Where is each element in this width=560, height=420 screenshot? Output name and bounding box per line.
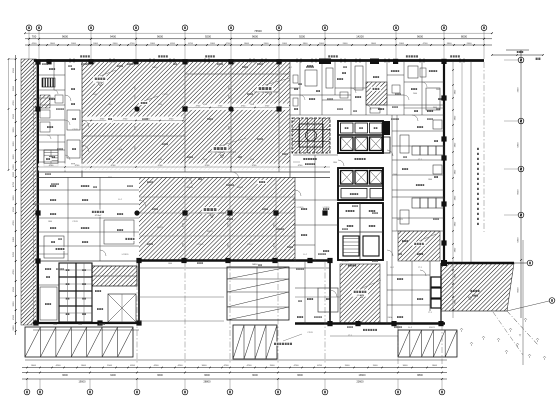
left hatched wall band: [21, 59, 36, 325]
svg-text:LC1820: LC1820: [342, 261, 349, 263]
svg-text:3600: 3600: [371, 43, 377, 45]
svg-text:FM-A: FM-A: [118, 148, 123, 151]
svg-text:1800: 1800: [168, 263, 172, 265]
svg-text:1800: 1800: [53, 324, 57, 326]
svg-text:4200: 4200: [228, 223, 230, 227]
svg-text:FM-A: FM-A: [388, 316, 393, 319]
leader lines: [100, 70, 436, 341]
svg-text:C1515: C1515: [72, 129, 78, 131]
svg-text:YT-1: YT-1: [34, 149, 38, 151]
svg-text:C1515: C1515: [72, 221, 78, 223]
svg-text:9600: 9600: [62, 35, 68, 39]
svg-text:3600: 3600: [13, 195, 15, 201]
svg-text:1800: 1800: [183, 219, 187, 221]
svg-text:YT-1: YT-1: [418, 159, 422, 161]
svg-text:5200: 5200: [13, 164, 15, 170]
partitions in hatched halls: [82, 62, 295, 261]
svg-text:4200: 4200: [130, 365, 136, 367]
svg-text:YT-1: YT-1: [348, 335, 352, 337]
svg-text:2400: 2400: [229, 86, 231, 90]
svg-text:9600: 9600: [157, 35, 163, 39]
door swing arcs: [65, 95, 426, 297]
top dimension strip with grid bubbles: [24, 25, 544, 60]
svg-text:5800: 5800: [518, 142, 520, 148]
svg-text:C1515: C1515: [307, 332, 313, 334]
svg-text:9000: 9000: [252, 374, 258, 377]
svg-text:9600: 9600: [204, 374, 210, 377]
svg-text:2400: 2400: [210, 43, 216, 45]
svg-text:2400: 2400: [393, 174, 397, 176]
svg-text:3600: 3600: [202, 365, 208, 367]
svg-text:420.5m²: 420.5m²: [96, 81, 104, 84]
canopy band bottom-left: [25, 327, 133, 357]
ramp band bottom-middle lower: [233, 325, 277, 359]
svg-text:1800: 1800: [447, 43, 453, 45]
svg-text:M1021: M1021: [247, 244, 253, 246]
svg-text:3600: 3600: [436, 89, 440, 91]
svg-text:9400: 9400: [110, 374, 116, 377]
main open-plan hatched hall top-left: [82, 62, 290, 170]
svg-text:2400: 2400: [264, 43, 270, 45]
escalator shaft cross-hatched: [292, 118, 330, 153]
svg-text:1500: 1500: [373, 365, 379, 367]
elevator bank 2: [338, 168, 383, 200]
svg-text:4700: 4700: [158, 159, 162, 161]
svg-text:1500: 1500: [345, 365, 351, 367]
left wing rooms: [37, 62, 330, 178]
svg-text:4200: 4200: [274, 243, 276, 247]
building outer walls: [33, 60, 514, 324]
svg-text:2400: 2400: [250, 104, 254, 106]
svg-text:MB10: MB10: [152, 67, 158, 69]
svg-text:4200: 4200: [170, 43, 176, 45]
svg-text:8000: 8000: [518, 287, 520, 293]
core corridor rooms: [293, 155, 338, 324]
svg-text:JL-2: JL-2: [118, 199, 122, 201]
svg-text:YT-1: YT-1: [428, 312, 432, 314]
outside ground lines: [25, 268, 447, 360]
svg-text:3600: 3600: [13, 127, 15, 133]
svg-text:MB10: MB10: [252, 264, 258, 266]
svg-text:14200: 14200: [356, 35, 364, 39]
svg-text:3600: 3600: [13, 171, 15, 177]
hatched room top-right small: [366, 82, 387, 105]
svg-text:2400: 2400: [228, 243, 230, 247]
svg-text:M0921: M0921: [397, 219, 403, 221]
svg-text:1800: 1800: [428, 179, 432, 181]
svg-text:1800: 1800: [48, 221, 52, 223]
svg-text:-5.100: -5.100: [262, 92, 269, 94]
svg-text:4200: 4200: [135, 126, 137, 130]
svg-text:2400: 2400: [274, 223, 276, 227]
svg-text:1800: 1800: [78, 324, 82, 326]
svg-text:1500: 1500: [270, 365, 276, 367]
svg-text:4200: 4200: [135, 95, 137, 99]
svg-text:4200: 4200: [56, 365, 62, 367]
svg-text:5200: 5200: [13, 251, 15, 257]
svg-text:4700: 4700: [188, 43, 194, 45]
bottom-left dense toilet rooms: [38, 261, 139, 322]
svg-text:9600: 9600: [417, 35, 423, 39]
svg-text:1800: 1800: [333, 162, 337, 164]
right dimension strip with grid bubbles: [504, 50, 529, 365]
top-middle room cluster: [290, 62, 444, 115]
svg-text:JL-2: JL-2: [303, 254, 307, 256]
structural columns: [33, 59, 447, 327]
svg-text:4700: 4700: [224, 365, 230, 367]
svg-text:4200: 4200: [203, 104, 207, 106]
svg-text:1500: 1500: [13, 154, 15, 160]
grid axis dash-dot lines: [137, 62, 484, 364]
ramp grid bottom-middle: [227, 267, 289, 320]
svg-text:2400: 2400: [229, 126, 231, 130]
svg-text:M1021: M1021: [187, 187, 194, 189]
svg-text:2400: 2400: [113, 43, 119, 45]
svg-text:LC1820: LC1820: [197, 244, 204, 246]
svg-text:4700: 4700: [294, 365, 300, 367]
svg-text:2400: 2400: [399, 43, 405, 45]
svg-text:C1515: C1515: [162, 94, 168, 96]
svg-text:700: 700: [32, 35, 37, 39]
room labels: [44, 67, 425, 346]
svg-text:LC1820: LC1820: [323, 207, 330, 209]
svg-text:2400: 2400: [183, 243, 185, 247]
svg-text:9200: 9200: [299, 35, 305, 39]
svg-text:28800: 28800: [204, 381, 212, 384]
interior dim band in hall: [83, 104, 289, 124]
svg-text:9600: 9600: [62, 374, 68, 377]
svg-text:4700: 4700: [13, 269, 15, 275]
site boundary dashed line and marks: [460, 260, 555, 360]
svg-text:2400: 2400: [13, 325, 15, 331]
mid-left rooms: [38, 177, 139, 261]
bottom dimension strip with grid bubbles: [22, 365, 447, 395]
svg-text:1500: 1500: [13, 286, 15, 292]
svg-text:8000: 8000: [461, 35, 467, 39]
svg-text:9600: 9600: [252, 35, 258, 39]
svg-text:3600: 3600: [108, 177, 112, 179]
svg-text:4700: 4700: [108, 159, 112, 161]
svg-text:2400: 2400: [203, 159, 207, 161]
svg-text:4700: 4700: [226, 43, 232, 45]
svg-text:LC1820: LC1820: [122, 254, 129, 256]
svg-text:2400: 2400: [282, 43, 288, 45]
svg-text:76500: 76500: [254, 29, 262, 33]
svg-text:1500: 1500: [13, 113, 15, 119]
svg-text:3600: 3600: [433, 107, 437, 109]
elevation level marks: [98, 83, 472, 300]
svg-text:47.8m²: 47.8m²: [95, 214, 102, 217]
svg-text:2400: 2400: [150, 43, 156, 45]
small hatched room left wing: [40, 95, 50, 108]
svg-text:3600: 3600: [403, 365, 409, 367]
svg-text:M1021: M1021: [237, 187, 244, 189]
svg-text:JL-2: JL-2: [390, 267, 394, 269]
svg-text:3600: 3600: [31, 365, 37, 367]
elevator bank 1: [338, 121, 390, 153]
svg-text:1800: 1800: [71, 43, 77, 45]
svg-text:4700: 4700: [13, 100, 15, 106]
stair and service core: [338, 203, 383, 260]
svg-text:4200: 4200: [250, 159, 254, 161]
svg-text:4700: 4700: [13, 220, 15, 226]
svg-text:2400: 2400: [13, 236, 15, 242]
vertical boundary text: [477, 148, 479, 150]
left dimension strip: [8, 55, 17, 335]
svg-text:1800: 1800: [319, 43, 325, 45]
svg-text:3600: 3600: [13, 85, 15, 91]
svg-text:19000: 19000: [79, 381, 87, 384]
svg-text:8800: 8800: [417, 374, 423, 377]
svg-text:4200: 4200: [178, 365, 184, 367]
svg-text:1500: 1500: [13, 314, 15, 320]
svg-text:3600: 3600: [81, 365, 87, 367]
svg-text:2400: 2400: [467, 43, 473, 45]
svg-text:1500: 1500: [13, 206, 15, 212]
svg-text:9200: 9200: [205, 35, 211, 39]
hatched wedge right: [441, 263, 514, 311]
svg-text:2400: 2400: [93, 43, 99, 45]
svg-text:4700: 4700: [317, 365, 323, 367]
svg-text:9600: 9600: [297, 374, 303, 377]
svg-text:LC1820: LC1820: [297, 207, 304, 209]
svg-text:3600: 3600: [135, 86, 137, 90]
svg-text:4200: 4200: [32, 43, 38, 45]
hatched loading room bottom core: [340, 264, 380, 324]
hatched room right of core: [398, 231, 440, 261]
svg-text:5800: 5800: [518, 237, 520, 243]
svg-text:2400: 2400: [108, 104, 112, 106]
svg-text:3600: 3600: [432, 365, 438, 367]
hatched hall mid: [139, 177, 295, 260]
svg-text:4200: 4200: [158, 104, 162, 106]
svg-text:4200: 4200: [154, 365, 160, 367]
svg-text:4700: 4700: [423, 43, 429, 45]
svg-text:9600: 9600: [157, 374, 163, 377]
svg-text:LC1820: LC1820: [247, 199, 254, 201]
svg-text:JL-2: JL-2: [293, 121, 297, 123]
svg-text:3600: 3600: [135, 146, 137, 150]
svg-text:42.6m²: 42.6m²: [357, 294, 364, 297]
svg-text:YT-1: YT-1: [113, 269, 117, 271]
svg-text:3600: 3600: [229, 95, 231, 99]
svg-text:2400: 2400: [343, 43, 349, 45]
ramp band bottom-right: [398, 330, 457, 357]
lift lobby labels: [303, 158, 305, 160]
svg-text:1500: 1500: [107, 365, 113, 367]
svg-text:7400: 7400: [518, 87, 520, 93]
svg-text:23600: 23600: [357, 381, 365, 384]
svg-text:9400: 9400: [110, 35, 116, 39]
scattered small annotations: [33, 63, 440, 337]
svg-text:3600: 3600: [93, 94, 97, 96]
svg-text:1500: 1500: [13, 67, 15, 73]
svg-text:1500: 1500: [13, 141, 15, 147]
svg-text:8000: 8000: [518, 189, 520, 195]
interior right dimension line: [452, 62, 456, 318]
svg-text:M1021: M1021: [429, 327, 435, 329]
svg-text:2400: 2400: [229, 146, 231, 150]
right wing rooms: [387, 115, 444, 324]
svg-text:M1021: M1021: [207, 231, 213, 233]
svg-text:2400: 2400: [413, 93, 417, 95]
svg-text:4700: 4700: [247, 365, 253, 367]
svg-text:3600: 3600: [244, 43, 250, 45]
svg-text:4700: 4700: [13, 181, 15, 187]
svg-text:4700: 4700: [130, 43, 136, 45]
interior dimension row: [37, 164, 330, 171]
svg-text:67.5m²: 67.5m²: [207, 212, 214, 215]
svg-text:JL-2: JL-2: [288, 67, 292, 69]
svg-text:M0921: M0921: [157, 227, 163, 229]
svg-text:YT-1: YT-1: [418, 267, 422, 269]
svg-text:(73.30m²): (73.30m²): [215, 151, 224, 154]
svg-text:3600: 3600: [50, 43, 56, 45]
svg-text:1800: 1800: [303, 43, 309, 45]
svg-text:4200: 4200: [183, 223, 185, 227]
door jambs on top wall: [70, 59, 464, 63]
svg-text:3600: 3600: [13, 301, 15, 307]
svg-text:13600: 13600: [359, 374, 367, 377]
